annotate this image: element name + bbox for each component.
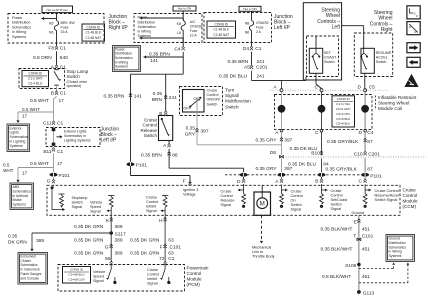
svg-text:0.5 WHT: 0.5 WHT: [30, 161, 49, 167]
label box Hot At All Times: [42, 6, 73, 13]
svg-text:in Antilock: in Antilock: [13, 194, 29, 198]
svg-text:Vehicle: Vehicle: [93, 270, 105, 274]
wire 0.35 GRY 397 from on/off switch: [196, 101, 198, 145]
svg-text:D: D: [237, 179, 241, 185]
svg-text:C: C: [359, 179, 363, 185]
box resume/accel switch: [361, 48, 374, 73]
svg-text:Cruise: Cruise: [146, 196, 157, 200]
wire branch to abs box: [18, 167, 54, 169]
svg-text:0.35 BRN: 0.35 BRN: [149, 52, 170, 58]
svg-text:Resume/Accel: Resume/Accel: [375, 194, 400, 198]
svg-text:Hot in ON: Hot in ON: [178, 7, 192, 11]
svg-text:C1: C1: [60, 46, 66, 52]
svg-text:C4: C4: [367, 130, 373, 136]
on/off switch contacts: [199, 97, 201, 99]
svg-text:17: 17: [59, 98, 65, 104]
wire branch to release switch B: [165, 74, 167, 110]
svg-text:C1: C1: [57, 149, 63, 155]
svg-text:in Wiring: in Wiring: [12, 30, 26, 34]
svg-text:Control: Control: [187, 271, 202, 276]
svg-text:CONN ID: CONN ID: [29, 72, 43, 76]
svg-text:0.35 GRY: 0.35 GRY: [256, 166, 278, 172]
branch arrow to power distribution 1: [42, 18, 57, 20]
mechanical link dashed lead: [261, 215, 263, 241]
wire 0.35 BRN 141 down to P101: [130, 74, 132, 163]
connector line C201 dotted: [283, 156, 426, 158]
svg-text:63: 63: [168, 250, 174, 256]
wire fuse to D4: [251, 31, 253, 47]
svg-text:COAST: COAST: [324, 56, 337, 60]
svg-text:Left I/P: Left I/P: [101, 138, 118, 144]
box steering wheel controls left: [303, 3, 341, 80]
svg-text:o: o: [409, 25, 411, 29]
conn-id table coil: [332, 96, 355, 127]
svg-text:0.35 DK BLU: 0.35 DK BLU: [288, 162, 317, 168]
wire fuse to C4: [182, 31, 184, 47]
svg-text:Lighting Systems: Lighting Systems: [64, 139, 91, 143]
svg-text:Schematics: Schematics: [10, 135, 28, 139]
icon page symbol 2: [407, 22, 420, 35]
svg-text:Left: Left: [332, 25, 341, 31]
svg-text:N5: N5: [49, 22, 54, 26]
svg-text:Steering Wheel: Steering Wheel: [378, 101, 409, 106]
svg-text:389: 389: [115, 250, 123, 256]
svg-text:Hot in ON: Hot in ON: [243, 7, 257, 11]
svg-text:C1-2 GRY: C1-2 GRY: [28, 77, 44, 81]
svg-text:Cruise: Cruise: [207, 89, 218, 93]
coil wire B through module: [321, 92, 323, 106]
svg-text:in Wiring: in Wiring: [389, 250, 402, 254]
dashed box resume/accel switch assembly: [354, 33, 392, 77]
svg-text:Ignition 3: Ignition 3: [183, 188, 198, 192]
dashed box power distribution (brake fuse): [8, 14, 104, 44]
svg-text:Control: Control: [291, 194, 303, 198]
svg-text:0.35: 0.35: [8, 233, 18, 239]
svg-text:(CCM): (CCM): [403, 204, 417, 209]
svg-text:C4=8 BLK: C4=8 BLK: [336, 117, 351, 121]
wire release switch to CCM D: [169, 167, 244, 169]
svg-text:WHT: WHT: [3, 168, 14, 173]
svg-text:Stoplamp: Stoplamp: [72, 196, 88, 200]
svg-text:A/C: A/C: [190, 20, 196, 24]
arrow to exterior lights text: [57, 136, 62, 138]
svg-text:ON/OFF: ON/OFF: [207, 98, 222, 102]
svg-text:S217: S217: [115, 231, 127, 237]
svg-text:C1=68 BLU: C1=68 BLU: [68, 273, 84, 277]
svg-text:Signal: Signal: [146, 209, 157, 213]
svg-text:Ground: Ground: [352, 211, 365, 215]
svg-text:Multifunction: Multifunction: [225, 99, 251, 104]
svg-text:CONN ID: CONN ID: [70, 268, 84, 272]
svg-text:C1: C1: [255, 46, 261, 52]
svg-text:87: 87: [367, 167, 373, 173]
svg-text:C3=2 PPL: C3=2 PPL: [336, 112, 350, 116]
fuse BRK SW 15A: [54, 21, 58, 31]
svg-text:P101: P101: [59, 173, 71, 179]
wire 0.35 GRY/BLK 87 lower: [364, 158, 366, 173]
svg-text:Link to: Link to: [252, 250, 263, 254]
svg-text:0.5: 0.5: [3, 163, 10, 168]
svg-text:72: 72: [159, 256, 165, 262]
wire drop to coil pin A: [281, 81, 283, 89]
wire hot-in-on to fuse: [182, 11, 184, 21]
dashed box set/coast switch assembly: [307, 36, 339, 77]
grommet P101 wire C: [361, 173, 369, 177]
svg-text:Control: Control: [146, 200, 158, 204]
svg-text:Switch: Switch: [207, 102, 218, 106]
svg-text:141: 141: [134, 94, 142, 100]
fuse CRUISE 2A: [249, 21, 253, 31]
svg-text:Switch: Switch: [376, 60, 387, 64]
svg-text:Systems: Systems: [10, 144, 24, 148]
grommet P101 left: [50, 173, 58, 177]
svg-text:397: 397: [201, 129, 209, 135]
svg-text:0.35 DK GRN: 0.35 DK GRN: [74, 250, 104, 256]
svg-text:Cruise: Cruise: [147, 268, 158, 272]
svg-text:0.8 BLK/WHT: 0.8 BLK/WHT: [322, 274, 351, 280]
svg-text:C5: C5: [369, 85, 375, 91]
svg-text:Systems: Systems: [13, 203, 27, 207]
svg-text:Systems: Systems: [12, 35, 26, 39]
box abs schematics: [10, 183, 34, 210]
svg-text:0.35 GRY: 0.35 GRY: [256, 137, 278, 143]
svg-text:84: 84: [323, 162, 329, 168]
svg-text:Switch: Switch: [324, 60, 335, 64]
svg-text:S106: S106: [345, 263, 357, 269]
wire 0.8 ORN 540: [56, 51, 58, 64]
grommet P100 wire B: [318, 173, 326, 177]
svg-text:389: 389: [115, 237, 123, 243]
svg-text:Cruise: Cruise: [331, 189, 342, 193]
svg-text:Schematics: Schematics: [12, 25, 31, 29]
svg-text:P101: P101: [136, 163, 148, 169]
svg-text:Signal: Signal: [147, 282, 158, 286]
ccm resume/accel input: [369, 189, 371, 192]
svg-text:C4: C4: [174, 47, 180, 53]
svg-text:Signal/: Signal/: [225, 93, 240, 98]
wire 0.35 DK BLU 241: [251, 71, 253, 81]
svg-text:Switch: Switch: [291, 203, 302, 207]
svg-text:Speed: Speed: [90, 205, 101, 209]
svg-text:Switch: Switch: [225, 104, 239, 109]
svg-text:Distribution: Distribution: [138, 20, 156, 24]
dashed box junction block left ip pass-through: [46, 128, 100, 147]
svg-text:Exterior Lights: Exterior Lights: [64, 130, 87, 134]
box cruise control release switch: [159, 116, 173, 141]
svg-text:Lights: Lights: [10, 131, 20, 135]
icon arrow right: [407, 43, 420, 53]
svg-text:Switch: Switch: [72, 201, 83, 205]
svg-text:B10: B10: [311, 151, 320, 157]
ccm inhibit output network: [162, 195, 168, 197]
svg-text:397: 397: [284, 137, 292, 143]
svg-text:0.35 BLK/WHT: 0.35 BLK/WHT: [321, 246, 353, 252]
wire BRN down from C4: [182, 52, 184, 74]
svg-text:Systems: Systems: [389, 254, 402, 258]
svg-text:C: C: [315, 130, 319, 136]
svg-text:RESUME: RESUME: [376, 51, 392, 55]
svg-text:17: 17: [22, 114, 28, 119]
svg-text:0.35 BRN: 0.35 BRN: [104, 94, 125, 100]
wire dk blu horizontal to steering wheel: [252, 80, 307, 82]
svg-text:C5=8 BLK: C5=8 BLK: [336, 122, 351, 126]
dashed box junction block left ip top: [204, 13, 272, 43]
svg-text:K8: K8: [177, 22, 181, 26]
svg-text:Signal: Signal: [291, 208, 302, 212]
svg-text:Ground: Ground: [389, 237, 400, 241]
svg-text:0.5 WHT: 0.5 WHT: [22, 107, 40, 112]
svg-text:C201: C201: [256, 65, 268, 71]
svg-text:63: 63: [168, 237, 174, 243]
svg-text:Inhibit: Inhibit: [147, 277, 158, 281]
wire horizontal BRN header: [131, 73, 184, 75]
svg-text:Inhibit: Inhibit: [146, 205, 157, 209]
svg-text:C101: C101: [170, 244, 182, 250]
dashed leader G113 to ground distribution: [359, 282, 408, 284]
svg-text:55: 55: [105, 256, 111, 262]
svg-text:c: c: [416, 14, 418, 18]
svg-text:0.35 GRY/BLK: 0.35 GRY/BLK: [326, 167, 358, 173]
dashed box stop lamp switch: [19, 69, 65, 89]
svg-text:241: 241: [257, 73, 265, 79]
svg-text:Turn: Turn: [225, 88, 235, 93]
svg-text:Power: Power: [12, 16, 23, 20]
svg-text:ON: ON: [193, 97, 199, 101]
svg-text:Fuse: Fuse: [256, 26, 264, 30]
wire resume out to connector D C5: [364, 73, 366, 88]
splice S106: [357, 263, 361, 267]
svg-text:Switch: Switch: [67, 74, 81, 79]
ccm on switch signal input: [285, 189, 287, 192]
grommet P100 release wire: [240, 173, 248, 177]
icon page symbol 1: [407, 6, 420, 19]
svg-text:T: T: [353, 233, 356, 239]
svg-text:Control: Control: [221, 194, 233, 198]
svg-text:Right: Right: [381, 27, 393, 33]
label box Hot in ON 1: [173, 6, 196, 11]
svg-text:H: H: [159, 218, 163, 224]
svg-text:Module Coil: Module Coil: [378, 106, 402, 111]
svg-text:C1: C1: [57, 121, 63, 127]
svg-text:D4: D4: [243, 46, 249, 52]
svg-text:0.35 DK BLU: 0.35 DK BLU: [219, 73, 248, 79]
svg-text:0.35 BRN: 0.35 BRN: [228, 59, 249, 65]
svg-text:Distribution: Distribution: [12, 21, 30, 25]
splice S217: [109, 231, 113, 235]
svg-text:A5: A5: [244, 65, 250, 71]
ccm stoplamp input network: [51, 186, 54, 189]
svg-text:451: 451: [362, 274, 370, 280]
svg-text:0.35 BLK/WHT: 0.35 BLK/WHT: [321, 227, 353, 233]
svg-text:F: F: [183, 179, 186, 185]
svg-text:BRK SW: BRK SW: [61, 21, 76, 25]
grommet P100 wire A: [278, 173, 286, 177]
wire 0.35 GRY 397 upper: [281, 132, 283, 155]
svg-text:operated): operated): [67, 84, 82, 88]
svg-text:Schematics: Schematics: [138, 25, 156, 29]
coil B: [318, 105, 326, 113]
wire 0.35 BRN 241 to C201: [251, 52, 253, 65]
svg-text:B: B: [315, 179, 318, 185]
svg-text:Cruise: Cruise: [221, 190, 232, 194]
coil A: [278, 105, 286, 113]
wire 0.35 DK GRN 389 from CCM K: [110, 215, 112, 262]
svg-text:Control: Control: [403, 193, 418, 198]
svg-text:G: G: [105, 244, 109, 250]
svg-text:D: D: [358, 85, 362, 91]
svg-text:Module: Module: [187, 277, 203, 282]
fuse A/C CRUISE 10A: [181, 21, 185, 31]
svg-text:Right I/P: Right I/P: [109, 25, 129, 31]
svg-text:P101: P101: [370, 173, 382, 179]
label inflatable restraint steering wheel module coil: [375, 96, 377, 111]
svg-text:Set/Coast: Set/Coast: [331, 198, 349, 202]
connector line C5 dotted: [270, 89, 388, 91]
svg-text:and Console: and Console: [21, 276, 40, 280]
svg-text:G: G: [47, 179, 51, 185]
pcm vehicle speed switch symbol: [110, 265, 112, 270]
svg-text:451: 451: [362, 246, 370, 252]
box on/off switch: [183, 90, 205, 113]
svg-text:0.35 GRY/BLK: 0.35 GRY/BLK: [327, 139, 359, 145]
label box Hot in ON 2: [239, 6, 261, 11]
svg-text:141: 141: [150, 58, 158, 64]
svg-text:DK GRN: DK GRN: [8, 239, 27, 245]
ground G113: [357, 290, 361, 294]
svg-text:241: 241: [169, 95, 177, 101]
svg-text:Switch: Switch: [144, 133, 158, 138]
stop lamp switch contacts: [54, 69, 58, 71]
svg-text:Cruise: Cruise: [403, 188, 417, 193]
svg-text:N8: N8: [245, 22, 250, 26]
svg-text:C201: C201: [368, 152, 380, 158]
wire 0.35 GRY 397 lower: [281, 159, 283, 173]
svg-text:Distribution: Distribution: [389, 241, 406, 245]
wire branch to instrument cluster: [32, 232, 111, 234]
svg-text:0.35 DK GRN: 0.35 DK GRN: [74, 237, 104, 243]
svg-text:N6: N6: [49, 31, 54, 35]
svg-text:in Wiring: in Wiring: [138, 30, 152, 34]
svg-text:Signal: Signal: [331, 207, 342, 211]
svg-text:B: B: [51, 91, 54, 97]
wire to CCM F ignition 3 voltage: [130, 166, 132, 176]
svg-text:C2-48 NAT: C2-48 NAT: [213, 33, 229, 37]
wire 0.5 WHT 17 upper: [56, 86, 58, 90]
svg-text:B11: B11: [43, 149, 52, 155]
box set/coast switch: [309, 48, 322, 73]
junction block pass-through wire: [53, 127, 55, 147]
svg-text:15 A: 15 A: [61, 30, 69, 34]
dashed box cruise control on/off switch: [180, 87, 223, 116]
svg-text:BRN: BRN: [152, 97, 163, 103]
svg-text:Signal: Signal: [90, 210, 101, 214]
svg-text:F8: F8: [48, 46, 54, 52]
svg-text:Cruise Control: Cruise Control: [375, 189, 399, 193]
svg-text:G113: G113: [363, 291, 375, 297]
svg-text:C2=2 GRY: C2=2 GRY: [336, 107, 351, 111]
svg-text:o: o: [415, 30, 417, 34]
wire 0.35 BLK/WHT 451 from CCM E: [358, 215, 360, 291]
svg-text:C1=4 YEL: C1=4 YEL: [336, 102, 350, 106]
svg-text:Fuse: Fuse: [190, 29, 198, 33]
wire 0.5 WHT 17 lower: [53, 153, 55, 172]
svg-text:CONN ID: CONN ID: [215, 22, 229, 26]
svg-text:ABS: ABS: [13, 185, 21, 189]
svg-text:Control: Control: [147, 273, 159, 277]
svg-text:C11: C11: [43, 121, 52, 127]
svg-text:10 A: 10 A: [190, 34, 198, 38]
svg-text:Mechanical: Mechanical: [252, 246, 271, 250]
svg-text:Signal: Signal: [221, 203, 232, 207]
svg-text:Signal: Signal: [72, 205, 83, 209]
svg-text:C2=68 CLR: C2=68 CLR: [68, 278, 85, 282]
svg-text:0.35 DK GRN: 0.35 DK GRN: [74, 224, 104, 230]
ccm vehicle speed output network: [108, 195, 115, 197]
icon warning triangle: [404, 74, 418, 87]
dashed leader S106 to ground distribution: [359, 268, 394, 270]
svg-text:Hot at All Times: Hot at All Times: [46, 8, 68, 12]
svg-text:C10: C10: [354, 152, 363, 158]
wire fuse to F8: [56, 31, 58, 46]
dashed box inflatable restraint coil: [275, 95, 373, 130]
wire steering left to resume switch: [342, 25, 364, 27]
svg-text:Exterior: Exterior: [10, 126, 23, 130]
svg-text:Module: Module: [403, 199, 419, 204]
coil C: [361, 105, 369, 113]
svg-text:N6: N6: [245, 31, 250, 35]
svg-text:D: D: [359, 130, 363, 136]
svg-text:0.35: 0.35: [186, 126, 196, 132]
pcm inhibit switch symbol: [164, 265, 166, 270]
svg-text:Throttle Body: Throttle Body: [252, 255, 275, 259]
dashed box powertrain control module PCM: [58, 265, 185, 292]
dashed box junction block right ip: [134, 14, 202, 43]
motor cruise servo: [254, 192, 271, 215]
svg-text:241: 241: [257, 59, 265, 65]
svg-text:Switch Signal: Switch Signal: [375, 198, 398, 202]
svg-text:SET: SET: [324, 51, 332, 55]
wire hot-at-all-times to fuse: [56, 13, 58, 21]
svg-text:0.5 WHT: 0.5 WHT: [30, 98, 49, 104]
wire 0.35 DK GRN 63 from CCM H: [164, 215, 166, 262]
svg-text:CONN ID: CONN ID: [337, 97, 351, 101]
svg-text:OFF: OFF: [184, 107, 192, 111]
box exterior lights schematics: [7, 124, 30, 152]
svg-text:CONN ID: CONN ID: [87, 25, 101, 29]
svg-text:0.35 DK GRN: 0.35 DK GRN: [130, 250, 160, 256]
svg-text:C: C: [315, 85, 319, 91]
coil wire C through module: [364, 92, 366, 106]
svg-text:Switch: Switch: [331, 203, 342, 207]
icon arrow left: [407, 57, 420, 67]
svg-text:0.8 ORN: 0.8 ORN: [33, 55, 52, 61]
svg-text:Release: Release: [221, 199, 235, 203]
svg-text:(PCM): (PCM): [187, 282, 201, 287]
svg-text:17: 17: [57, 161, 63, 167]
svg-text:C2-48 NAT: C2-48 NAT: [85, 36, 101, 40]
svg-text:Speed: Speed: [93, 275, 104, 279]
wire 0.35 GRY/BLK 87 upper: [364, 132, 366, 151]
svg-text:C1-48 BLK: C1-48 BLK: [85, 31, 101, 35]
svg-text:Left I/P: Left I/P: [274, 25, 291, 31]
wire into set/coast switch: [315, 36, 317, 49]
svg-text:L8: L8: [177, 31, 181, 35]
svg-text:Schematics in: Schematics in: [64, 134, 86, 138]
svg-text:C2-4 BLU: C2-4 BLU: [28, 81, 43, 85]
svg-text:86: 86: [172, 153, 178, 159]
svg-text:C1-48 BLK: C1-48 BLK: [213, 28, 229, 32]
coil wire A through module: [281, 92, 283, 106]
